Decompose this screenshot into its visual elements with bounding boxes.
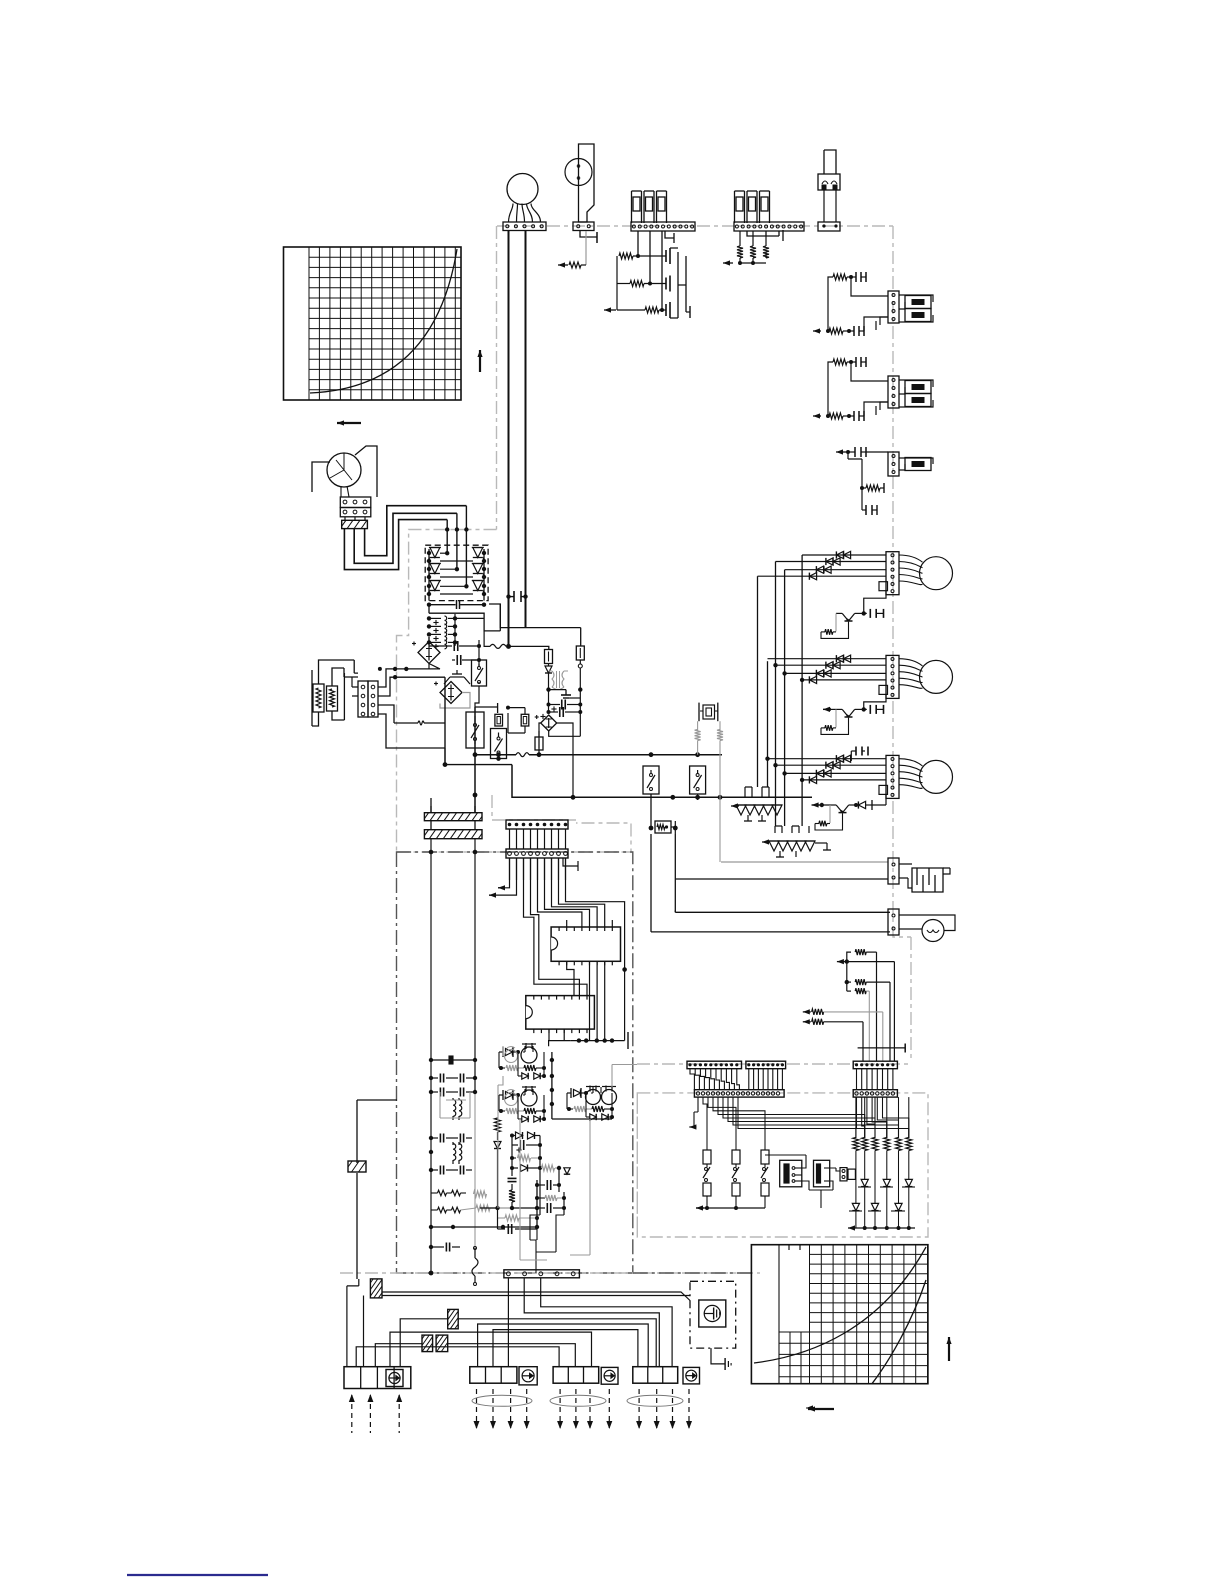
CN-A fanout wires (703, 1097, 909, 1150)
terminal block BT4 (633, 1367, 678, 1384)
harness left vertical 2 (358, 1279, 360, 1286)
lamp S1-L1 (905, 296, 931, 309)
triac bank2 loops (775, 826, 809, 833)
bus 1227 (431, 1225, 536, 1229)
dashed arrow down b3-3 (587, 1389, 593, 1429)
relay RB diode-cap (499, 1090, 520, 1100)
wire T1 bottom (546, 687, 566, 691)
terminal bar (596, 232, 598, 243)
thick wire W1 left (508, 231, 510, 647)
capacitor S2-C1 (851, 357, 866, 367)
lamp S2-L2 (905, 394, 931, 407)
rnet drop v6 (862, 1022, 864, 1061)
motor3 input wire 4 (802, 779, 886, 781)
motor bus v-b (775, 562, 777, 827)
motor3 aux wire (872, 794, 886, 805)
motor2 transistor Q (836, 709, 864, 717)
gate resistor R-g2 (617, 281, 666, 287)
connector CN-A3 row2 (694, 1090, 784, 1097)
motor2 diodes row2 (826, 662, 840, 669)
wire rail A left (445, 764, 512, 766)
rnet resistor R2 (845, 962, 890, 992)
dashed arrow down b4-1 (636, 1389, 642, 1429)
left rail S1 (827, 287, 829, 331)
rnet drop v5 gray (882, 1012, 884, 1061)
dashed arrow down b2-2 (490, 1389, 496, 1429)
dashed arrow down b3-4 (606, 1389, 612, 1429)
igbt Q5 (472, 564, 486, 578)
dashed arrow down b3-2 (573, 1389, 579, 1429)
wire S3-w2 (861, 488, 863, 510)
lamp wiring S1 (899, 295, 933, 322)
junction LW1 (443, 762, 448, 767)
connector CN6 top row (506, 820, 568, 829)
CN7 arrow wire 2 (489, 858, 517, 898)
connector CN-RL (840, 1168, 855, 1181)
net boundary dash-dot left vertical upper (496, 226, 498, 530)
fuse F10 (506, 706, 529, 733)
CN2 lead T-bar (665, 231, 674, 243)
terminal block BT3 (553, 1367, 599, 1384)
CN6-CN7 wires (510, 829, 566, 849)
harness pair line 2 (382, 1295, 690, 1297)
hatch component H4 (422, 1335, 433, 1352)
motor2 diodes row3 (816, 670, 831, 677)
motor2 lead 1 (899, 659, 923, 666)
wire RW verticals (651, 834, 675, 932)
motor3 lead 1 (899, 759, 923, 766)
rnet arrow pair 2 (803, 1019, 863, 1025)
motor1 base resistor (821, 622, 849, 639)
relay box RL2 (814, 1160, 830, 1187)
dashed arrow up 3 (396, 1394, 402, 1433)
net boundary gray segment (492, 795, 576, 820)
igbt Q2 (427, 564, 441, 578)
fuse F7 (545, 650, 553, 664)
cap pair row4 (431, 1166, 472, 1175)
motor1 transistor Q (836, 613, 864, 621)
motor bus v-c (784, 570, 786, 826)
IC U1 top pins (559, 927, 612, 931)
CT leads (341, 486, 349, 497)
dashed arrow down b4-4 (686, 1389, 692, 1429)
motor2 lead 5 (899, 685, 923, 689)
bottom capacitor S2-C2 (849, 411, 864, 421)
bus bar stubs (431, 806, 475, 830)
motor2 input wire 3 (785, 672, 886, 674)
motor3 lead 5 (899, 785, 923, 789)
cap row 1247 (431, 1243, 460, 1252)
dashed arrow down b4-2 (654, 1389, 660, 1429)
motor bus v-d (801, 555, 803, 826)
left rail LB (473, 839, 478, 1258)
diode D7 (545, 666, 552, 673)
arrow S2 (813, 413, 821, 418)
loop ellipse b3 (550, 1395, 606, 1406)
pump circle (922, 920, 944, 942)
connector CN-B2 row2 (853, 1090, 897, 1097)
transformer T2 (446, 1098, 466, 1120)
motor bus v-e (767, 661, 769, 787)
crystal component (699, 703, 718, 722)
motor2 input wire 1 (768, 658, 887, 660)
gray dash horizontal upper (637, 1063, 911, 1065)
motor1 input wire 2 (776, 561, 887, 563)
transformer T1 gray (549, 671, 569, 690)
wire top to bars (431, 795, 475, 813)
motor bus taps m3 (765, 757, 804, 783)
wire SW4 down (650, 794, 652, 828)
connector CN8 (504, 1270, 580, 1278)
motor2 aux wire (864, 694, 886, 709)
module left rail (427, 549, 431, 601)
sensor wiring (312, 660, 354, 726)
motor1 junction (862, 611, 866, 615)
resistor array (853, 1097, 912, 1203)
motor3 diode D9 (854, 800, 872, 810)
mosfet left rail (616, 256, 618, 310)
BT2 circle-arrow (519, 1367, 537, 1385)
wire SW2 top (475, 703, 498, 713)
net boundary dash-dot right vertical (893, 226, 911, 937)
motor bus taps m2 (773, 663, 804, 682)
thermal wavy 723 (418, 721, 424, 725)
wire bus2 to W2 (489, 604, 581, 646)
cap C10 (547, 690, 583, 710)
igbt Q3 (427, 581, 441, 595)
CN2 leads down (638, 231, 662, 310)
connector CN-heater (888, 858, 899, 884)
ground unit dash box (690, 1281, 736, 1348)
connector CN-pump (888, 909, 899, 935)
connector CN-S1 (888, 291, 899, 323)
motor2 input wire 4 (802, 679, 886, 681)
resistor+arrow to net (558, 262, 586, 268)
thick wire W2 right (525, 231, 527, 628)
arrow left from fuse group2 (723, 260, 733, 265)
inductor row1 (431, 1190, 466, 1196)
module bottom bus1 with cap (427, 600, 486, 609)
IC U1 body (551, 927, 620, 961)
rnet arrow pair 1 (803, 1009, 883, 1015)
wire right rail down (579, 690, 581, 712)
power rail A y754.7 (473, 752, 722, 757)
bridge BR2 gray box (440, 693, 470, 709)
timing chart grid bottom-right (751, 1245, 928, 1384)
ground unit inner (699, 1300, 726, 1327)
motor3 base arrow (812, 802, 830, 807)
BT4 circle-arrow (683, 1367, 700, 1384)
loop ellipse b2 (472, 1395, 532, 1406)
lamp S2-L1 (905, 381, 931, 394)
hatch component H3 (448, 1309, 459, 1328)
relay RC resistor row (567, 1106, 614, 1112)
wire coil to right (455, 617, 484, 619)
motor2 junction (862, 707, 866, 711)
switch SW3 (491, 729, 507, 759)
triac bank1 (736, 805, 782, 815)
igbt module dashed box (425, 545, 488, 600)
switch branch bus (696, 1205, 765, 1210)
arrow up bottom-right (946, 1337, 951, 1361)
rnet resistor R1 (847, 949, 877, 962)
hatch bus bar upper (424, 813, 482, 821)
motor1 diodes row1 (836, 551, 850, 558)
relay RB coil1 (521, 1086, 537, 1106)
lamp S1-L2 (905, 309, 931, 322)
fuse F9 (495, 714, 503, 726)
motor M3 circle (920, 760, 953, 793)
harness line to b4c1 (478, 1324, 649, 1367)
transformer T2 gray loop (440, 1092, 470, 1118)
CN7 arrow wire 1 (498, 858, 510, 890)
fuse F8 (576, 646, 584, 660)
U1 bottom wires (567, 961, 605, 1040)
diode array row1 (858, 1179, 915, 1228)
net boundary mid horizontal (397, 823, 632, 852)
motor3 diodes row4 (809, 776, 816, 783)
motor2 lead 3 (899, 672, 923, 677)
bridge BR1 leads (428, 637, 430, 669)
harness line to b3c3 (390, 1332, 592, 1367)
display box gray rect (637, 1093, 928, 1237)
CT inner lines (330, 453, 352, 480)
wire drop2 (352, 1279, 370, 1286)
motor1 lead 3 (899, 568, 923, 573)
motor2 diodes row1 (836, 655, 850, 662)
connector CN2 strip (631, 222, 695, 231)
harness line via H3 (400, 1319, 656, 1367)
footer rule (127, 1574, 268, 1576)
left wire drop (357, 1100, 397, 1279)
motor3 input wire 3 (785, 772, 886, 774)
rnet drop v3 (889, 982, 891, 1061)
wire CN7-9 to right rail (566, 858, 625, 970)
crystal gray wire left (695, 721, 701, 755)
motor1 connector aux (879, 582, 888, 591)
motor2 lead 2 (899, 665, 923, 671)
connector CN-thermo (573, 222, 594, 231)
diode array row2 (849, 1203, 905, 1228)
relay RB resistor row (499, 1108, 546, 1114)
switch SW1 (472, 660, 487, 686)
heater wires (899, 864, 950, 888)
terminal block BT2 (470, 1367, 517, 1384)
bottom resistor S1-R2 (826, 328, 851, 334)
U2 bottom bus (549, 1029, 628, 1049)
bridge BR2 (434, 682, 462, 704)
gray harness wires (498, 1046, 637, 1260)
left drop rail (474, 707, 476, 813)
relay RC diode-cap (567, 1088, 588, 1098)
cap pair row1 (431, 1060, 477, 1092)
resistor S2-R1 (828, 359, 853, 372)
motor3 transistor Q (830, 805, 856, 813)
cap small bar (431, 1056, 475, 1064)
CN7 drop wires (510, 858, 566, 880)
arrow left mid (806, 1405, 813, 1410)
motor3 input wire 2 (776, 764, 887, 766)
diode array bus (848, 1225, 915, 1230)
dashed arrow up 1 (349, 1394, 355, 1433)
hatch bar TB1 (342, 520, 368, 528)
motor3 base drop gray (829, 805, 831, 823)
motor3 diodes row1 (836, 755, 850, 762)
triac bank1 arrow (731, 803, 739, 808)
rnet drop v4 gray (868, 991, 870, 1061)
arrow to net from mosfets (604, 307, 616, 312)
wire LW-bottom (444, 748, 446, 765)
motor3 input wire 1 (768, 758, 887, 760)
dashed arrow down b2-1 (474, 1389, 480, 1429)
arrow S3 (836, 449, 846, 454)
junction RW (649, 821, 678, 834)
relay RB coil gray (505, 1090, 518, 1106)
motor1 input wire 3 (785, 569, 886, 571)
thermostat inner marks (577, 160, 580, 184)
bottom gray dash-dot line (340, 1272, 760, 1274)
terminal block stubs (345, 517, 365, 521)
motor3 lead 2 (899, 765, 923, 771)
mosfet Q1 (666, 248, 670, 264)
BT3 circle-arrow (601, 1367, 618, 1384)
pump wires (899, 915, 955, 931)
motor2 connector aux (879, 685, 888, 694)
relay cluster wire (552, 1117, 612, 1119)
switch SW2 (466, 712, 484, 748)
CN8 drop pin1 (507, 1278, 509, 1367)
igbt Q4 (472, 548, 486, 562)
motor2 connector (886, 655, 899, 698)
bottom capacitor S1-C2 (849, 326, 864, 336)
harness left vertical 1 (347, 1286, 359, 1367)
arrow up (to chart) (477, 350, 482, 372)
wire CN7-7 to IC1 (552, 858, 598, 927)
IC U2 body (526, 996, 595, 1030)
CN-B wires (857, 1069, 893, 1090)
lamp wiring S2 (899, 380, 933, 407)
left drop dot (473, 793, 478, 798)
relay RB frame (499, 1089, 544, 1119)
hatch component H2 (370, 1279, 382, 1298)
motor2 base drop gray (835, 709, 837, 727)
motor3 base resistor (815, 813, 843, 830)
motor1 base drop gray (835, 613, 837, 631)
switch branch 2 (732, 1150, 740, 1208)
motor1 input wire 1 (802, 554, 886, 556)
CN7 T-bar (563, 858, 578, 871)
arrow left bottom-right (808, 1406, 834, 1411)
relay K1 coil lines (824, 150, 836, 174)
rnet T-bar (858, 1044, 906, 1053)
motor3 lead 4 (899, 778, 923, 782)
connector CN-fan (503, 222, 546, 231)
wire BR3 loop (549, 712, 581, 797)
triac bank2 bars (776, 843, 831, 857)
relay K1 leads (824, 190, 836, 222)
thermo gray lead (585, 231, 587, 265)
junction SW3 (496, 757, 500, 761)
mains wires 3-phase loop (344, 506, 466, 570)
wire CN7-6 to IC1 (545, 858, 590, 927)
mosfet source bar (686, 306, 690, 318)
switch branch 1 (703, 1150, 711, 1208)
sensor R1 box (313, 684, 324, 712)
module bottom bus2 (429, 604, 500, 631)
cap pair row3 (431, 1134, 472, 1143)
motor bus v-a (757, 576, 759, 787)
switch SW5 (690, 766, 706, 794)
snubber drop wires (512, 1176, 564, 1273)
module internal hwires (440, 561, 473, 594)
motor3 diodes row3 (816, 770, 831, 777)
motor1 input wire 4 (758, 575, 887, 577)
terminal block BT1 (344, 1367, 411, 1389)
loop ellipse b4 (627, 1395, 683, 1406)
motor2 base arrow (823, 707, 836, 712)
motor3 connector (886, 755, 899, 798)
bottom dark dash-dot line (633, 1272, 755, 1274)
connector CN3 strip (734, 222, 804, 231)
connector CN5 2x4 (358, 681, 378, 717)
thermal fuse TH2 (516, 753, 539, 757)
BR3 plus mark (540, 714, 545, 719)
connector CN-B1 (853, 1061, 897, 1069)
thermostat circle (565, 159, 592, 186)
harness line to b3c1 (356, 1347, 559, 1367)
wire CN7-4 to IC2 loop (531, 858, 580, 996)
relay left resistor (494, 1118, 501, 1208)
motor1 lead 5 (899, 581, 923, 585)
module right rail (482, 549, 486, 601)
coil column (427, 614, 457, 649)
connector CN7 bottom row (506, 849, 568, 858)
wire right rail lower (622, 967, 627, 1040)
bridge BR1 (412, 642, 440, 664)
motor1 capacitor (864, 609, 884, 618)
connector CN-A1 (687, 1061, 742, 1069)
motor1 connector (886, 552, 899, 595)
motor1 aux wire (864, 591, 886, 614)
relay RB diode row (518, 1116, 546, 1122)
fuse group F1-F3 (632, 191, 667, 223)
lamp S3-L1 (905, 458, 931, 471)
left rail S2 (827, 372, 829, 416)
thermo lead down (580, 231, 597, 237)
rnet drop v1 (876, 952, 878, 1061)
wire mid horizontal 723 (394, 722, 445, 724)
bridge BR3 (535, 715, 557, 731)
mosfet Q8 (561, 690, 580, 698)
harness pair line 1 (382, 1292, 690, 1301)
wire IC1 pins short (567, 920, 613, 927)
lamp wiring S3 (899, 458, 933, 470)
terminal block TB1 (340, 497, 371, 517)
connector CN4 (818, 222, 840, 231)
wire W1-end right (509, 646, 549, 649)
wire CN7-5 to IC1 (538, 858, 582, 927)
gate resistor R-g3 (617, 307, 666, 313)
fuse group F4-F6 (735, 191, 770, 223)
wire S3-w1 (848, 452, 888, 459)
motor1 lead 2 (899, 562, 923, 568)
wire S2-w2 (864, 402, 888, 416)
dashed arrow down b4-3 (670, 1389, 676, 1429)
relay RA coil1 (521, 1043, 537, 1063)
dashed arrow down b2-3 (508, 1389, 514, 1429)
relay RA resistor row (499, 1065, 546, 1071)
T-bar S1 (876, 317, 888, 330)
